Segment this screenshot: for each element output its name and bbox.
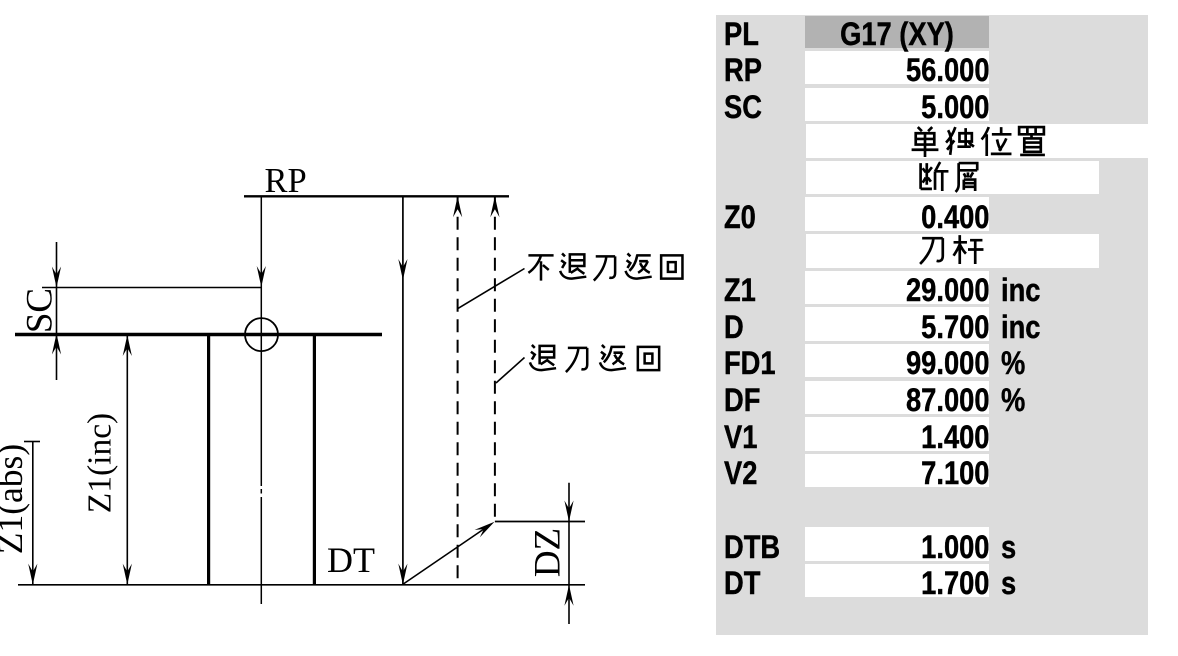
dimension SC line <box>56 242 58 380</box>
leader line to label no-retract <box>458 269 525 309</box>
workpiece surface line (thick) <box>15 333 382 336</box>
white field row FD1 <box>805 344 990 378</box>
unit inc <box>1001 311 1040 345</box>
white field row DTB <box>805 527 990 561</box>
white field row Z1 <box>805 271 990 305</box>
white field row RP <box>805 51 990 85</box>
svg-text:DZ: DZ <box>527 528 568 577</box>
value 87.000 <box>834 384 989 418</box>
param label FD1 <box>724 347 776 381</box>
arrow on axis down to SC plane <box>257 266 266 287</box>
svg-text:SC: SC <box>19 288 60 333</box>
tool center axis <box>260 196 262 486</box>
param label PL <box>724 18 759 52</box>
cjk text dan-du-wei-zhi (single position) <box>0 125 1178 159</box>
unit inc <box>1001 274 1040 308</box>
unit s <box>1001 567 1016 601</box>
tool circle <box>245 318 278 351</box>
param label V1 <box>724 421 757 455</box>
param label DF <box>724 384 760 418</box>
param label DTB <box>724 531 780 565</box>
value 1.700 <box>834 567 989 601</box>
svg-text:DT: DT <box>327 540 375 580</box>
cjk text duan-xie (chip breaking) <box>0 160 1178 194</box>
white field row DT <box>805 564 990 598</box>
param label D <box>724 311 744 345</box>
motion line down (solid) <box>402 196 404 584</box>
dimension Z1(abs) tick <box>24 441 40 443</box>
white field row SC <box>805 88 990 122</box>
svg-text:Z1(abs): Z1(abs) <box>0 444 30 554</box>
value 7.100 <box>834 457 989 491</box>
value 99.000 <box>834 347 989 381</box>
value 29.000 <box>834 274 989 308</box>
hole wall left <box>207 334 210 584</box>
unit % <box>1001 347 1025 381</box>
value 0.400 <box>834 201 989 235</box>
dimension Z1(abs) line <box>32 442 34 585</box>
param label DT <box>724 567 760 601</box>
hole wall right <box>313 334 316 584</box>
CJK label retract-return (tui dao fan hui) <box>530 345 659 372</box>
param label Z1 <box>724 274 756 308</box>
value 1.000 <box>834 531 989 565</box>
white field row DF <box>805 381 990 415</box>
white field row tool-shank <box>806 234 1099 268</box>
value 5.000 <box>834 91 989 125</box>
leader line to label retract <box>496 358 525 384</box>
unit % <box>1001 384 1025 418</box>
step line at DZ level <box>495 521 585 523</box>
white field row D <box>805 307 990 341</box>
bottom line (final depth) <box>18 584 585 586</box>
dashed retract line 1 (no retract) <box>457 196 459 584</box>
white field row V2 <box>805 454 990 488</box>
param label SC <box>724 91 762 125</box>
DT leader arrow to step corner <box>403 526 489 585</box>
param label Z0 <box>724 201 756 235</box>
unit s <box>1001 531 1016 565</box>
panel background <box>716 15 1148 635</box>
dimension DZ line <box>568 483 570 624</box>
dimension Z1(inc) line <box>126 335 128 585</box>
svg-text:Z1(inc): Z1(inc) <box>82 413 119 513</box>
value G17 (XY) <box>820 18 975 52</box>
field G17 <box>805 16 989 49</box>
param label RP <box>724 54 762 88</box>
dashed retract line 2 (retract) <box>494 196 496 521</box>
white field row chip-break <box>806 161 1099 195</box>
value 5.700 <box>834 311 989 345</box>
RP plane line <box>244 195 509 197</box>
white field row V1 <box>805 417 990 451</box>
param label V2 <box>724 457 757 491</box>
value 1.400 <box>834 421 989 455</box>
cjk text dao-gan (tool shank) <box>0 233 1178 267</box>
white field row single-position <box>806 124 1148 158</box>
CJK label no-retract-return (bu tui dao fan hui) <box>528 253 682 280</box>
white field row Z0 <box>805 197 990 231</box>
value 56.000 <box>834 54 989 88</box>
SC plane line <box>42 287 261 289</box>
